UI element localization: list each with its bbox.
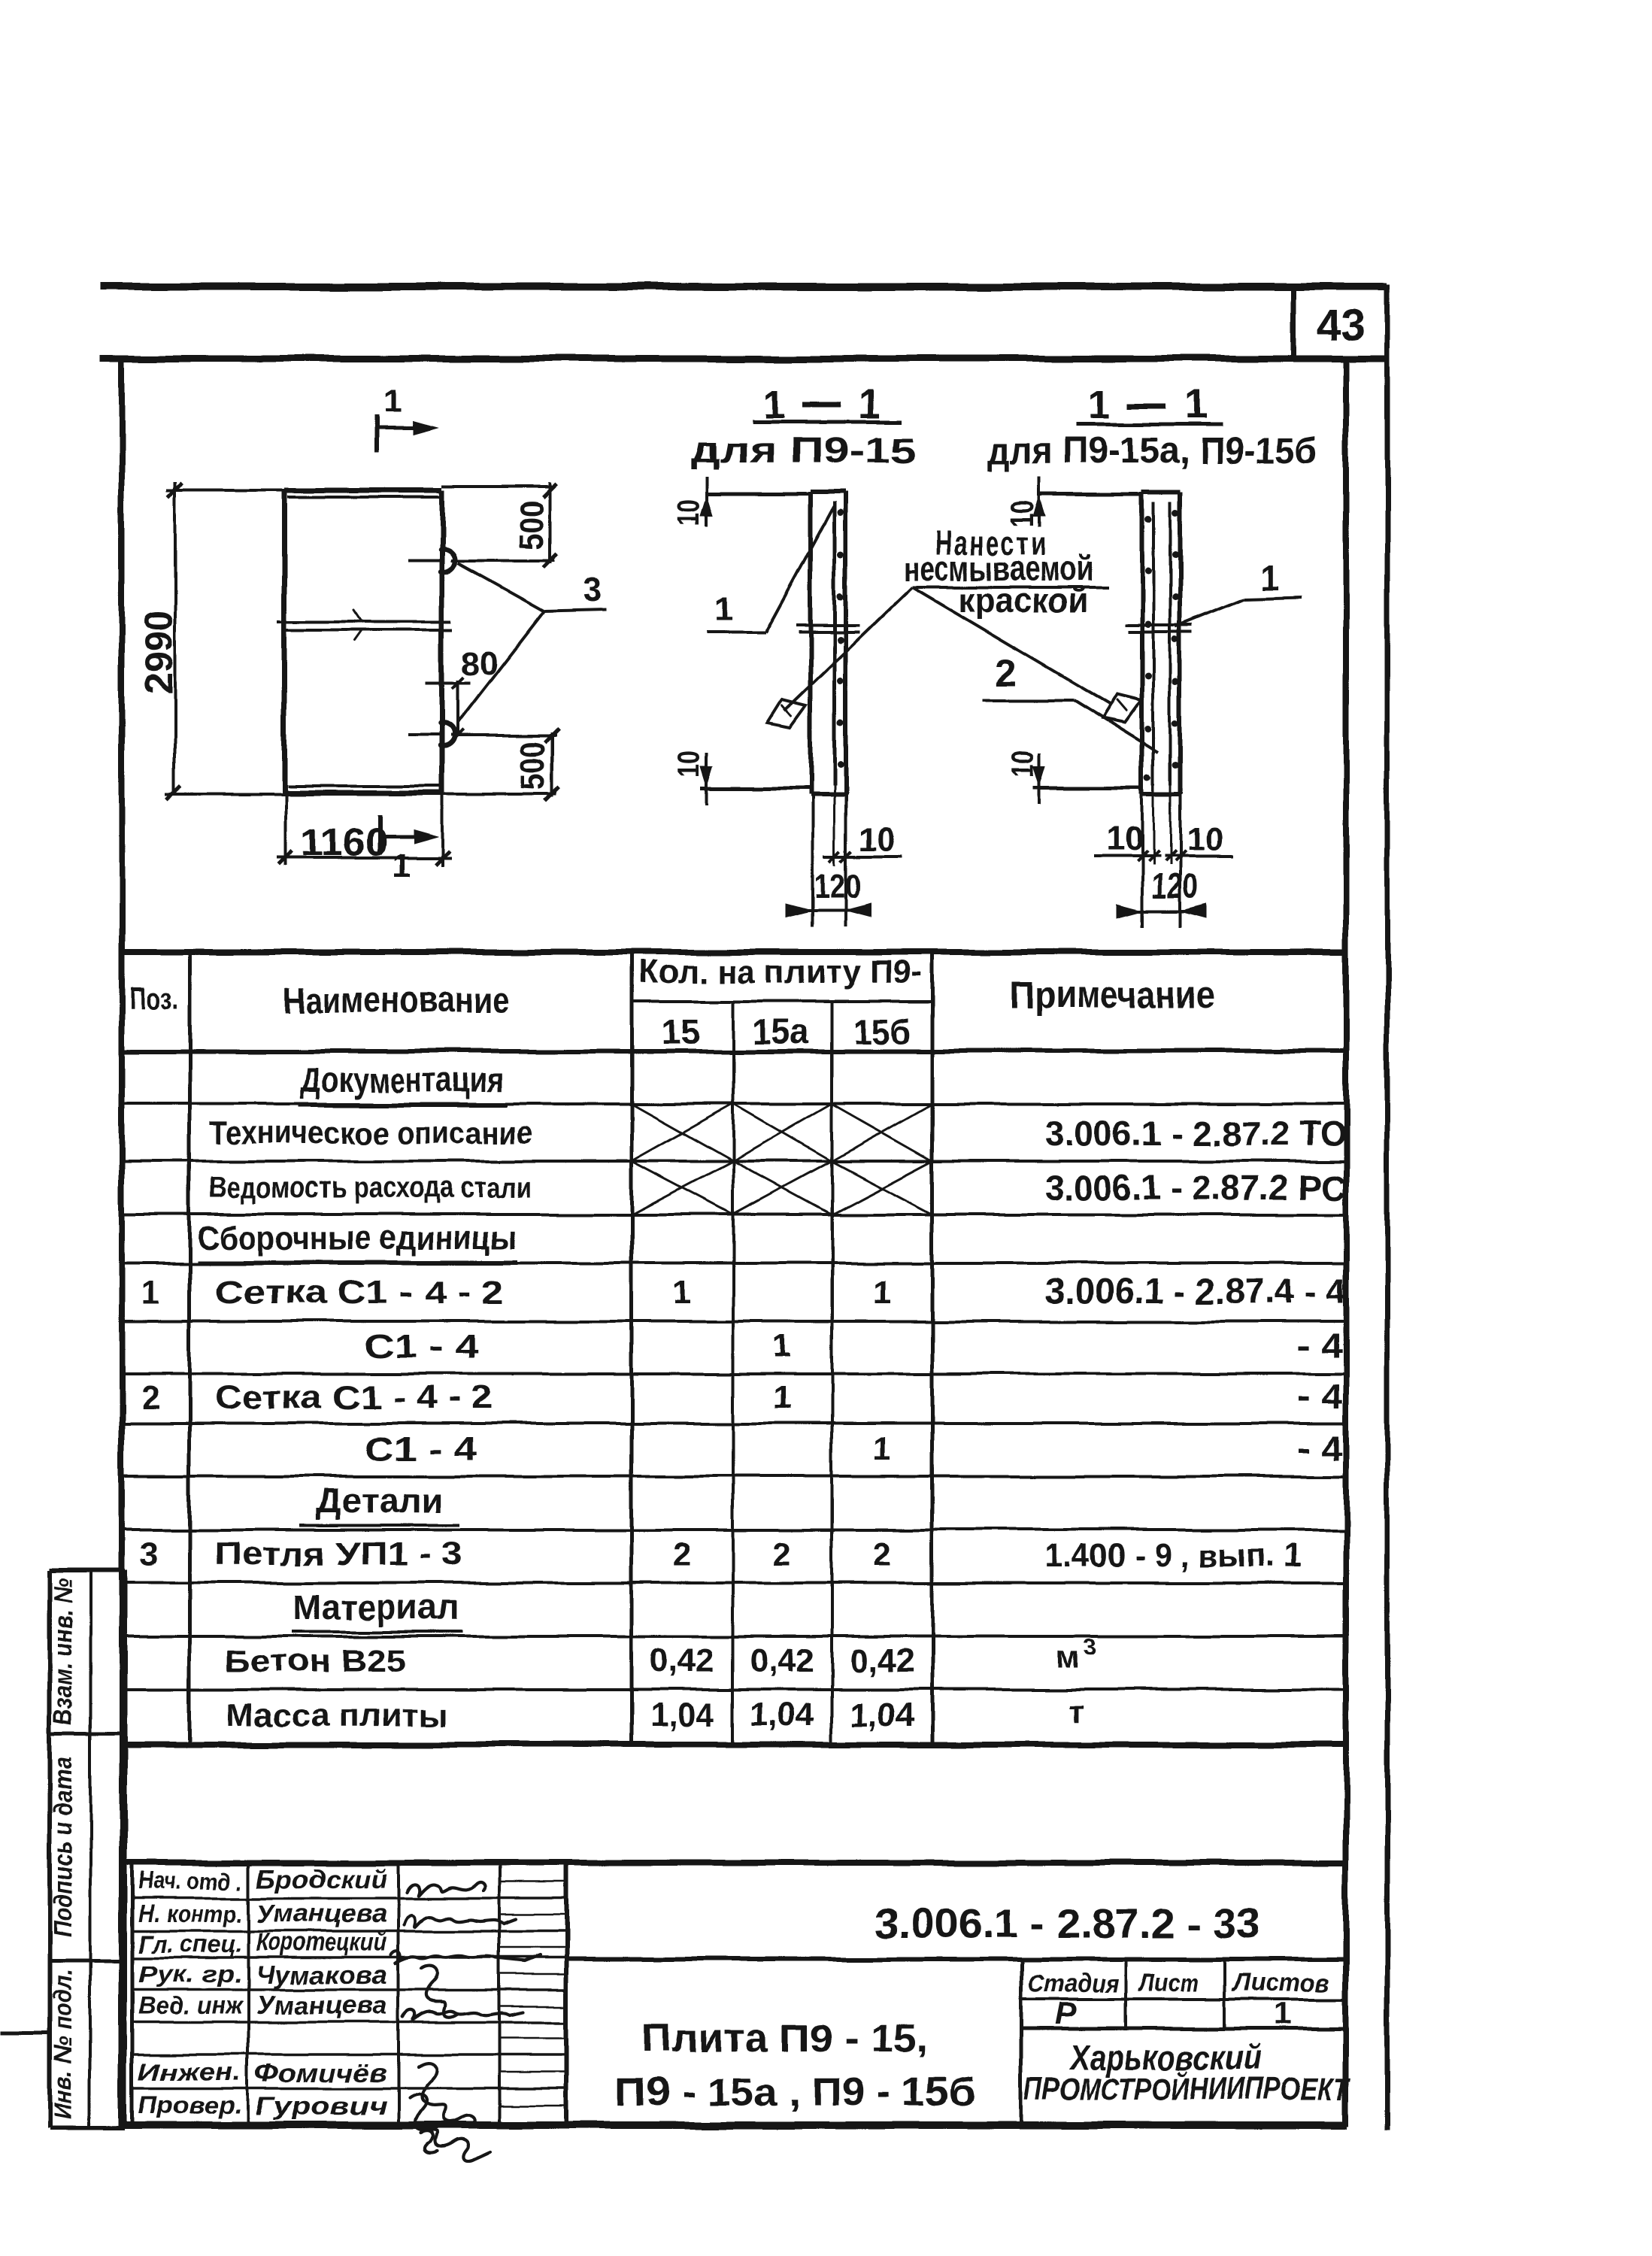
svg-text:Лист: Лист <box>1138 1969 1199 1997</box>
svg-text:2: 2 <box>773 1536 791 1572</box>
svg-text:- 4: - 4 <box>1297 1428 1342 1467</box>
svg-text:500: 500 <box>515 741 552 790</box>
svg-text:Бродский: Бродский <box>256 1865 387 1894</box>
svg-text:- 4: - 4 <box>1297 1326 1342 1365</box>
svg-text:Плита П9 - 15,: Плита П9 - 15, <box>642 2017 929 2060</box>
svg-text:ПРОМСТРОЙНИИПРОЕКТ: ПРОМСТРОЙНИИПРОЕКТ <box>1024 2070 1351 2106</box>
svg-text:2: 2 <box>996 652 1017 694</box>
svg-text:15а: 15а <box>752 1012 809 1051</box>
svg-text:Материал: Материал <box>293 1587 459 1627</box>
svg-text:Подпись и дата: Подпись и дата <box>49 1757 77 1937</box>
svg-text:Масса плиты: Масса плиты <box>226 1697 447 1733</box>
svg-text:- 4: - 4 <box>1297 1377 1342 1416</box>
svg-text:3.006.1 - 2.87.2 - 33: 3.006.1 - 2.87.2 - 33 <box>875 1901 1260 1946</box>
svg-text:0,42: 0,42 <box>850 1642 914 1679</box>
svg-text:П9 - 15а , П9 - 15б: П9 - 15а , П9 - 15б <box>616 2071 975 2115</box>
svg-text:500: 500 <box>514 500 550 550</box>
svg-text:10: 10 <box>671 750 706 778</box>
svg-text:10: 10 <box>1005 750 1040 778</box>
svg-text:1: 1 <box>673 1274 691 1311</box>
svg-text:Наименование: Наименование <box>283 981 509 1020</box>
svg-text:2990: 2990 <box>137 611 180 695</box>
svg-text:3: 3 <box>1084 1635 1096 1660</box>
svg-text:Коротецкий: Коротецкий <box>256 1928 387 1957</box>
svg-text:т: т <box>1069 1694 1085 1729</box>
svg-text:2: 2 <box>673 1536 691 1572</box>
svg-text:3.006.1 - 2.87.2 РС: 3.006.1 - 2.87.2 РС <box>1045 1168 1346 1207</box>
svg-text:Поз.: Поз. <box>129 981 177 1016</box>
svg-text:1160: 1160 <box>302 821 388 865</box>
svg-text:10: 10 <box>1187 820 1223 857</box>
svg-text:Примечание: Примечание <box>1011 974 1215 1016</box>
svg-text:м: м <box>1056 1639 1079 1675</box>
svg-text:1: 1 <box>383 383 402 420</box>
svg-text:Н. контр.: Н. контр. <box>138 1900 242 1927</box>
svg-text:1: 1 <box>1184 382 1207 427</box>
svg-text:Сетка С1 - 4 - 2: Сетка С1 - 4 - 2 <box>214 1274 504 1311</box>
svg-text:1: 1 <box>773 1379 791 1416</box>
svg-text:10: 10 <box>1005 499 1040 526</box>
svg-text:Кол. на плиту П9-: Кол. на плиту П9- <box>638 954 923 990</box>
svg-text:Гурович: Гурович <box>256 2092 387 2121</box>
svg-text:Сборочные единицы: Сборочные единицы <box>197 1220 517 1257</box>
svg-text:Детали: Детали <box>316 1481 444 1520</box>
svg-text:Вед. инж: Вед. инж <box>138 1992 243 2019</box>
svg-text:0,42: 0,42 <box>650 1642 714 1679</box>
svg-text:120: 120 <box>1151 866 1198 905</box>
svg-text:1: 1 <box>773 1328 791 1365</box>
svg-text:С1 - 4: С1 - 4 <box>365 1430 478 1467</box>
svg-text:Уманцева: Уманцева <box>256 1900 387 1928</box>
svg-text:Стадия: Стадия <box>1028 1969 1120 1998</box>
svg-text:Уманцева: Уманцева <box>256 1991 387 2020</box>
svg-text:Взам. инв. №: Взам. инв. № <box>49 1578 77 1725</box>
svg-text:3.006.1 - 2.87.2 ТО: 3.006.1 - 2.87.2 ТО <box>1045 1114 1346 1153</box>
svg-text:Бетон В25: Бетон В25 <box>226 1643 406 1678</box>
svg-text:10: 10 <box>671 499 706 526</box>
svg-text:для П9-15: для П9-15 <box>690 431 916 471</box>
svg-text:43: 43 <box>1317 301 1366 350</box>
svg-text:1: 1 <box>1088 382 1111 427</box>
svg-text:3: 3 <box>582 570 602 609</box>
svg-text:3: 3 <box>140 1536 158 1572</box>
svg-text:1: 1 <box>1259 558 1279 597</box>
svg-text:1: 1 <box>714 590 733 629</box>
svg-text:Инжен.: Инжен. <box>138 2058 242 2085</box>
svg-text:Р: Р <box>1056 1996 1078 2031</box>
svg-text:Сетка С1 - 4 - 2: Сетка С1 - 4 - 2 <box>214 1379 493 1416</box>
svg-text:2: 2 <box>141 1379 159 1416</box>
svg-text:1,04: 1,04 <box>650 1697 714 1733</box>
svg-text:Рук. гр.: Рук. гр. <box>138 1960 242 1988</box>
svg-text:Петля УП1 - 3: Петля УП1 - 3 <box>214 1536 462 1572</box>
svg-text:С1 - 4: С1 - 4 <box>365 1328 478 1365</box>
svg-text:Нач. отд .: Нач. отд . <box>138 1867 242 1894</box>
svg-text:Ведомость расхода стали: Ведомость расхода стали <box>209 1172 532 1205</box>
svg-text:Документация: Документация <box>301 1060 504 1099</box>
svg-text:10: 10 <box>1107 820 1144 857</box>
svg-text:1,04: 1,04 <box>750 1697 814 1733</box>
svg-text:Листов: Листов <box>1231 1969 1329 1997</box>
svg-text:120: 120 <box>814 866 861 905</box>
svg-text:1: 1 <box>141 1274 159 1311</box>
svg-text:1.400 - 9 , вып. 1: 1.400 - 9 , вып. 1 <box>1045 1537 1301 1574</box>
svg-text:Провер.: Провер. <box>138 2091 242 2118</box>
svg-text:1: 1 <box>1273 1996 1290 2031</box>
svg-text:0,42: 0,42 <box>750 1642 814 1679</box>
svg-text:15: 15 <box>661 1012 699 1051</box>
svg-text:Чумакова: Чумакова <box>256 1961 387 1990</box>
svg-text:2: 2 <box>873 1536 891 1572</box>
svg-text:3.006.1 - 2.87.4 - 4: 3.006.1 - 2.87.4 - 4 <box>1045 1272 1346 1311</box>
svg-text:1: 1 <box>873 1430 891 1467</box>
svg-text:1: 1 <box>873 1274 891 1311</box>
svg-text:10: 10 <box>859 820 896 857</box>
svg-text:Гл. спец.: Гл. спец. <box>138 1930 242 1957</box>
svg-text:Техническое описание: Техническое описание <box>209 1114 532 1150</box>
svg-text:краской: краской <box>959 581 1088 620</box>
svg-text:15б: 15б <box>853 1012 910 1051</box>
svg-text:Фомичёв: Фомичёв <box>256 2059 387 2088</box>
svg-text:1,04: 1,04 <box>850 1697 914 1733</box>
svg-text:для П9-15а, П9-15б: для П9-15а, П9-15б <box>987 429 1317 472</box>
svg-text:1: 1 <box>393 848 411 884</box>
svg-text:Инв. № подл.: Инв. № подл. <box>49 1969 77 2119</box>
